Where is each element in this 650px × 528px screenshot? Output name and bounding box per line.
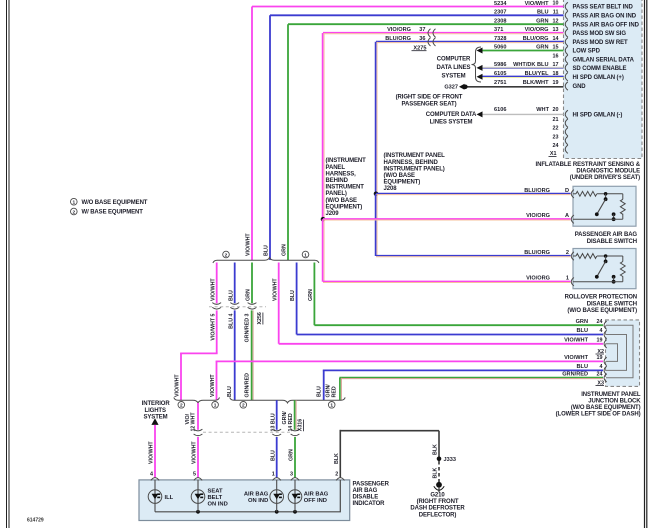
footnote 1 marker below merge brace (212, 402, 219, 409)
module U1 pin 20 bracket (565, 110, 568, 118)
wire VIO/WHT from interior lights to indicator pin 4 (154, 425, 156, 478)
wire BLU 4 below X256 down to merge brace (234, 310, 236, 400)
svg-text:2: 2 (242, 403, 245, 409)
svg-text:2751: 2751 (494, 80, 506, 86)
junction block internal bus 24-24 (606, 325, 633, 378)
junction block internal bus 4-4 (606, 335, 627, 371)
wire 5986 arrow to computer data lines (477, 65, 483, 71)
svg-text:GRN: GRN (289, 449, 295, 461)
svg-text:(RIGHT SIDE OF FRONT: (RIGHT SIDE OF FRONT (396, 95, 463, 101)
svg-text:BLU: BLU (228, 290, 234, 301)
svg-text:GMLAN SERIAL DATA: GMLAN SERIAL DATA (573, 57, 635, 63)
svg-text:W/O BASE EQUIPMENT: W/O BASE EQUIPMENT (82, 200, 148, 206)
svg-text:BLK: BLK (334, 453, 340, 464)
splice J208 dot (374, 192, 379, 197)
svg-text:BLU: BLU (290, 290, 296, 301)
svg-text:(W/O BASE EQUIPMENT): (W/O BASE EQUIPMENT) (571, 405, 641, 411)
wire BLU w/base vertical to X256 pin 4 (234, 263, 236, 304)
ground G327 splice dot and arrow (459, 84, 465, 90)
svg-text:13 BLU: 13 BLU (270, 413, 276, 431)
module U1 pin 22 bracket (565, 128, 568, 136)
svg-text:2: 2 (180, 403, 183, 409)
svg-text:2: 2 (335, 472, 338, 478)
svg-text:19: 19 (597, 355, 603, 361)
junction block pin 4 BLU bracket (604, 330, 607, 338)
wire GRN below X316 to indicator pin 3 (294, 437, 296, 478)
indicator lamp SEAT BELT ON IND (191, 490, 205, 504)
wire GRN w/o base vertical (313, 263, 315, 326)
svg-text:VIO/WHT: VIO/WHT (564, 338, 589, 344)
indicator pin bracket at x=295 (291, 478, 299, 481)
svg-text:X316: X316 (298, 419, 304, 431)
svg-text:614729: 614729 (27, 518, 44, 524)
svg-text:2308: 2308 (494, 19, 506, 25)
svg-text:PASS MOD SW SIG: PASS MOD SW SIG (573, 31, 627, 37)
wire VIO/WHT to junction block X2 pin 19 (279, 343, 603, 345)
svg-text:G327: G327 (444, 85, 458, 91)
svg-text:1: 1 (72, 200, 75, 206)
merge brace VIO/WHT pair (174, 397, 220, 403)
svg-text:VIO/ORG: VIO/ORG (525, 27, 549, 33)
svg-text:(W/O BASE: (W/O BASE (384, 173, 416, 179)
svg-text:GRN/RED: GRN/RED (245, 373, 251, 398)
passenger air bag disable indicator box (139, 480, 350, 521)
module U1 pin 23 bracket (565, 136, 568, 144)
svg-text:INDICATOR: INDICATOR (353, 501, 386, 507)
svg-text:BLK: BLK (433, 467, 439, 478)
svg-text:J209: J209 (326, 211, 340, 217)
wire 7328 vertical to splice J208 (375, 42, 377, 194)
junction block pin 24 GRN bracket (604, 321, 607, 329)
svg-text:4: 4 (150, 472, 153, 478)
wire BLU w/o base vertical (296, 263, 298, 335)
svg-text:OFF IND: OFF IND (304, 498, 327, 504)
module U1 pin 24 bracket (565, 145, 568, 153)
svg-text:AIR BAG: AIR BAG (353, 488, 378, 494)
wire 5234 VIO/WHT pin10 horizontal (252, 6, 564, 8)
svg-text:19: 19 (597, 338, 603, 344)
svg-text:VIO/WHT: VIO/WHT (149, 441, 155, 464)
module U1 pin 10 bracket (565, 2, 568, 10)
module U1 pin 17 bracket (565, 64, 568, 72)
svg-text:BLU: BLU (577, 364, 589, 370)
module U1 pin 12 bracket (565, 20, 568, 28)
svg-text:DATA LINES: DATA LINES (437, 65, 471, 71)
indicator pin bracket at x=198 (194, 478, 202, 481)
svg-text:GRN/RED: GRN/RED (562, 372, 588, 378)
connector X256 pin 3 (248, 303, 257, 305)
svg-text:GRN: GRN (282, 244, 288, 256)
wire VIO/WHT w/base vertical to X256 pin 5 (216, 263, 218, 304)
svg-text:RED: RED (332, 386, 338, 397)
svg-text:24: 24 (553, 143, 559, 149)
svg-text:J333: J333 (444, 457, 456, 463)
svg-text:24: 24 (597, 372, 603, 378)
page left border double line (6, 0, 8, 528)
svg-text:GRN/RED 3: GRN/RED 3 (245, 313, 251, 342)
svg-text:1: 1 (566, 276, 569, 282)
wire BLU/ORG from J208 down to rollover switch (375, 194, 377, 256)
svg-text:INSTRUMENT: INSTRUMENT (326, 185, 365, 191)
svg-text:(LOWER LEFT SIDE OF DASH): (LOWER LEFT SIDE OF DASH) (556, 412, 641, 418)
svg-text:5986: 5986 (494, 62, 506, 68)
svg-text:VIO/WHT: VIO/WHT (210, 278, 216, 301)
svg-text:VIO/WHT: VIO/WHT (525, 1, 550, 7)
svg-text:AIR BAG: AIR BAG (244, 492, 269, 498)
connector X275 on wire 371 (428, 29, 431, 37)
wire 6106 arrow to computer data lines (477, 111, 483, 117)
module U1 pin 19 bracket (565, 82, 568, 90)
svg-text:VIO/ORG: VIO/ORG (526, 213, 550, 219)
wire 2307 vertical drop at x=270 (269, 15, 271, 260)
svg-text:6106: 6106 (494, 107, 506, 113)
legend footnote 2 (71, 208, 78, 215)
svg-text:VIO/ORG: VIO/ORG (387, 27, 411, 33)
svg-text:BLU: BLU (264, 245, 270, 256)
wire BLK horizontal run (340, 430, 440, 432)
wire VIO/WHT w/o base vertical (278, 263, 280, 344)
svg-text:DISABLE: DISABLE (353, 495, 379, 501)
wire split brace with base / without base (213, 257, 319, 263)
svg-text:INSTRUMENT PANEL): INSTRUMENT PANEL) (384, 166, 445, 172)
connector X256 pin 5 (212, 303, 221, 305)
svg-text:LINES SYSTEM: LINES SYSTEM (430, 119, 473, 125)
svg-text:BLU: BLU (537, 10, 549, 16)
wire BLU to junction block X2 pin 4 (297, 334, 603, 336)
svg-text:(W/O BASE EQUIPMENT): (W/O BASE EQUIPMENT) (567, 308, 637, 314)
wire BLK down to splice J333 (438, 431, 440, 459)
svg-text:WHT/DK BLU: WHT/DK BLU (513, 62, 548, 68)
svg-text:COMPUTER: COMPUTER (437, 56, 471, 62)
svg-text:4: 4 (600, 328, 603, 334)
svg-text:VIO/WHT: VIO/WHT (272, 278, 278, 301)
svg-text:INFLATABLE RESTRAINT SENSING &: INFLATABLE RESTRAINT SENSING & (536, 162, 641, 168)
svg-text:SYSTEM: SYSTEM (441, 73, 465, 79)
svg-text:GND: GND (573, 84, 587, 90)
wire VIO/ORG from J209 down to rollover switch (322, 219, 324, 282)
wire 6105 BLU/YEL pin18 (481, 75, 564, 77)
wire 5234 vertical drop at x=252 (251, 7, 253, 261)
connector X256 dashed line (209, 306, 266, 308)
svg-text:WHT: WHT (536, 107, 549, 113)
wire GRN w/base vertical to X256 pin 3 (251, 263, 253, 304)
wire 7328 BLU/ORG pin14 horizontal (376, 40, 564, 42)
indicator lamp AIR BAG OFF IND (288, 490, 302, 504)
svg-text:1: 1 (214, 403, 217, 409)
svg-text:BLU/YEL: BLU/YEL (525, 71, 550, 77)
svg-text:(W/O BASE: (W/O BASE (326, 198, 358, 204)
svg-text:PASSENGER: PASSENGER (353, 481, 390, 487)
svg-text:HI SPD GMLAN (+): HI SPD GMLAN (+) (573, 75, 624, 81)
svg-text:GRN: GRN (536, 19, 548, 25)
svg-text:VIO/ORG: VIO/ORG (526, 276, 550, 282)
svg-text:DASH DEFROSTER: DASH DEFROSTER (410, 506, 465, 512)
svg-text:PASS AIR BAG ON IND: PASS AIR BAG ON IND (573, 13, 637, 19)
indicator pin bracket at x=155 (151, 478, 159, 481)
svg-text:AIR BAG: AIR BAG (304, 492, 329, 498)
svg-text:INSTRUMENT PANEL: INSTRUMENT PANEL (581, 392, 641, 398)
connector X316 pin 14 (291, 429, 300, 431)
svg-text:VIO/WHT: VIO/WHT (564, 355, 589, 361)
svg-text:2307: 2307 (494, 10, 506, 16)
svg-text:JUNCTION BLOCK: JUNCTION BLOCK (588, 398, 641, 404)
svg-text:BLU: BLU (227, 386, 233, 397)
svg-text:HARNESS,: HARNESS, (326, 171, 357, 177)
wire 2307 BLU pin11 horizontal (270, 14, 564, 16)
svg-text:ROLLOVER PROTECTION: ROLLOVER PROTECTION (565, 295, 637, 301)
svg-text:(INSTRUMENT: (INSTRUMENT (326, 158, 367, 164)
svg-text:6105: 6105 (494, 71, 506, 77)
svg-text:21: 21 (553, 117, 559, 123)
svg-text:EQUIPMENT): EQUIPMENT) (326, 204, 363, 210)
svg-text:VIO/WHT: VIO/WHT (192, 441, 198, 464)
svg-text:19: 19 (553, 80, 559, 86)
wire VIO/WHT 12 to connector X316 (197, 403, 199, 430)
inflatable restraint sensing & diagnostic module U1 box (564, 0, 643, 159)
svg-text:BLK: BLK (433, 444, 439, 455)
legend footnote 1 (71, 198, 78, 205)
module U1 pin 21 bracket (565, 119, 568, 127)
wire BLU/ORG to rollover switch pin 2 (376, 255, 571, 257)
wire VIO/WHT w/base down to merge brace (180, 353, 182, 400)
interior lights system arrow (151, 418, 158, 425)
svg-text:2: 2 (225, 252, 228, 258)
svg-text:BLU/ORG: BLU/ORG (524, 250, 550, 256)
wire VIO/WHT 5 below X256 (216, 310, 218, 353)
footnote 1 marker above brace (302, 251, 309, 258)
svg-text:HARNESS, BEHIND: HARNESS, BEHIND (384, 160, 439, 166)
svg-text:BLU/ORG: BLU/ORG (385, 36, 411, 42)
svg-text:(INSTRUMENT PANEL: (INSTRUMENT PANEL (384, 153, 446, 159)
splice J333 dot (437, 457, 442, 462)
passenger air bag disable switch S1 box (573, 186, 636, 226)
svg-text:D: D (565, 188, 569, 194)
wire GRN/RED junction X3 pin 24 to merge brace (339, 376, 603, 378)
wire BLU junction X3 pin 4 to merge brace (323, 369, 603, 371)
svg-text:PASS AIR BAG OFF IND: PASS AIR BAG OFF IND (573, 22, 640, 28)
svg-text:1: 1 (330, 403, 333, 409)
junction block pin 19 VIO/WHT bracket (604, 340, 607, 348)
svg-text:BLU/ORG: BLU/ORG (523, 36, 549, 42)
wire 2751 BLK/WHT pin19 from ground G327 (467, 86, 564, 88)
svg-text:VIO/WHT: VIO/WHT (175, 374, 181, 397)
svg-text:36: 36 (419, 36, 425, 42)
svg-text:(RIGHT FRONT: (RIGHT FRONT (417, 499, 459, 505)
junction block pin 4 BLU bracket (604, 366, 607, 374)
footnote 2 marker below BLU brace (240, 402, 247, 409)
indicator pin bracket at x=340.3 (336, 478, 344, 481)
svg-text:5060: 5060 (494, 45, 506, 51)
module U1 pin 11 bracket (565, 11, 568, 19)
wire BLK dashed to ground G210 (438, 461, 440, 482)
connector X316 dashed line (203, 431, 290, 433)
junction block pin 24 GRN/RED bracket (604, 374, 607, 382)
svg-text:20: 20 (553, 107, 559, 113)
svg-text:ON IND: ON IND (248, 498, 268, 504)
indicator internal bus from pin 2 (155, 480, 340, 512)
computer data lines system brace (472, 47, 482, 82)
svg-text:VIO/WHT: VIO/WHT (246, 233, 252, 256)
wire 5060 arrow to computer data lines (477, 48, 483, 54)
svg-text:GRN: GRN (536, 45, 548, 51)
svg-text:PANEL): PANEL) (326, 191, 347, 197)
svg-text:DEFLECTOR): DEFLECTOR) (419, 512, 457, 518)
wire 2308 vertical drop at x=288 (287, 24, 289, 260)
module U1 pin 16 bracket (565, 55, 568, 63)
connector X316 pin 13 (272, 429, 281, 431)
indicator bus junction dots (196, 510, 200, 514)
svg-text:G210: G210 (430, 492, 445, 498)
wire GRN to junction block X2 pin 24 (314, 324, 603, 326)
module U1 pin 13 bracket (565, 29, 568, 37)
page right border double line (644, 0, 646, 528)
svg-text:ON IND: ON IND (208, 501, 228, 507)
junction block pin 19 VIO/WHT bracket (604, 357, 607, 365)
svg-text:3: 3 (290, 472, 293, 478)
svg-text:EQUIPMENT): EQUIPMENT) (384, 180, 421, 186)
footnote 1 marker below BLU brace (328, 402, 335, 409)
rollover protection disable switch S2 box (573, 249, 636, 289)
svg-text:INTERIOR: INTERIOR (142, 401, 171, 407)
svg-text:VIO/WHT 5: VIO/WHT 5 (210, 313, 216, 340)
wire 371 vertical to splice J209 (322, 33, 324, 219)
svg-text:BLU 4: BLU 4 (228, 313, 234, 328)
svg-text:37: 37 (419, 27, 425, 33)
module U1 pin 14 bracket (565, 38, 568, 46)
indicator lamp ILL (148, 490, 162, 504)
footnote 2 marker above brace (223, 251, 230, 258)
connector X275 on wire 7328 (428, 38, 431, 46)
svg-text:WHT: WHT (191, 412, 197, 425)
svg-text:GRN: GRN (308, 289, 314, 301)
svg-text:HI SPD GMLAN (-): HI SPD GMLAN (-) (573, 113, 623, 119)
wire BLU 13 to connector X316 (276, 400, 278, 430)
wire VIO/ORG from J209 to passenger switch pin A (323, 218, 571, 220)
svg-text:BLK/WHT: BLK/WHT (523, 80, 549, 86)
svg-text:LOW SPD: LOW SPD (573, 49, 601, 55)
wire BLK from indicator pin 2 riser (339, 430, 341, 478)
svg-text:BELT: BELT (208, 495, 223, 501)
wire BLU below X316 to indicator pin 1 (276, 437, 278, 478)
svg-text:BLU/ORG: BLU/ORG (524, 188, 550, 194)
indicator lamp AIR BAG ON IND (270, 490, 284, 504)
merge brace BLU GRN/RED group (230, 397, 346, 403)
svg-text:SEAT: SEAT (208, 488, 223, 494)
svg-text:BLU: BLU (577, 328, 589, 334)
svg-text:PASSENGER AIR BAG: PASSENGER AIR BAG (575, 232, 638, 238)
svg-text:BEHIND: BEHIND (326, 178, 349, 184)
svg-text:A: A (565, 213, 569, 219)
svg-text:16: 16 (553, 53, 559, 59)
svg-text:24: 24 (597, 319, 603, 325)
wire GRN/RED 14 to connector X316 (294, 400, 296, 430)
svg-text:BLU: BLU (270, 450, 276, 461)
svg-text:ILL: ILL (165, 495, 174, 501)
svg-text:4: 4 (600, 364, 603, 370)
svg-text:GRN: GRN (246, 289, 252, 301)
svg-text:DIAGNOSTIC MODULE: DIAGNOSTIC MODULE (576, 168, 640, 174)
wire VIO/WHT below X316 to indicator pin 5 (197, 437, 199, 478)
splice J209 dot (321, 217, 326, 222)
wire VIO/WHT junction X3 pin 19 to merge brace (216, 360, 603, 362)
wire VIO/WHT jog left (180, 352, 218, 354)
svg-text:LIGHTS: LIGHTS (145, 408, 166, 414)
module U1 pin 15 bracket (565, 46, 568, 54)
svg-text:PASS SEAT BELT IND: PASS SEAT BELT IND (573, 5, 634, 11)
connector X316 pin 12 (194, 429, 203, 431)
svg-text:2: 2 (72, 209, 75, 215)
svg-text:DISABLE SWITCH: DISABLE SWITCH (587, 301, 637, 307)
svg-text:J208: J208 (384, 186, 398, 192)
svg-text:BLU: BLU (316, 386, 322, 397)
svg-text:W/ BASE EQUIPMENT: W/ BASE EQUIPMENT (82, 210, 144, 216)
svg-text:DISABLE SWITCH: DISABLE SWITCH (587, 239, 637, 245)
wire 5060 GRN pin15 (481, 50, 564, 52)
svg-text:1: 1 (304, 252, 307, 258)
svg-text:22: 22 (553, 126, 559, 132)
wire 6106 WHT pin20 (481, 113, 564, 115)
wire 5986 WHT/DK BLU pin17 (481, 66, 564, 68)
wire 2308 GRN pin12 horizontal (288, 23, 564, 25)
ground G210 symbol (436, 482, 442, 488)
svg-text:23: 23 (553, 134, 559, 140)
wire BLU/ORG from J208 to passenger switch pin D (376, 192, 571, 194)
svg-text:7328: 7328 (494, 36, 506, 42)
svg-text:PANEL: PANEL (326, 165, 346, 171)
svg-text:5: 5 (193, 472, 196, 478)
svg-text:(UNDER DRIVER'S SEAT): (UNDER DRIVER'S SEAT) (570, 175, 640, 181)
svg-text:2: 2 (566, 250, 569, 256)
wire GRN/RED 3 below X256 down to merge brace (251, 310, 253, 400)
indicator pin bracket at x=276.7 (273, 478, 281, 481)
footnote 2 marker below merge brace (178, 402, 185, 409)
connector X256 pin 4 (230, 303, 239, 305)
module U1 pin 18 bracket (565, 73, 568, 81)
svg-text:COMPUTER DATA: COMPUTER DATA (426, 112, 477, 118)
svg-text:PASS MOD SW RET: PASS MOD SW RET (573, 40, 628, 46)
wire 371 VIO/ORG pin13 horizontal (323, 32, 564, 34)
instrument panel junction block J1 box (606, 320, 640, 387)
svg-text:371: 371 (494, 27, 503, 33)
wire 6105 arrow to computer data lines (477, 74, 483, 80)
svg-text:SD COMM ENABLE: SD COMM ENABLE (573, 66, 627, 72)
svg-text:RED: RED (288, 413, 294, 424)
svg-text:PASSENGER SEAT): PASSENGER SEAT) (402, 102, 457, 108)
svg-text:1: 1 (272, 472, 275, 478)
svg-text:GRN: GRN (576, 319, 588, 325)
junction block internal bus 19-19 (606, 344, 618, 362)
svg-text:X256: X256 (257, 312, 263, 324)
svg-text:5234: 5234 (494, 1, 507, 7)
svg-text:VIO/WHT: VIO/WHT (210, 374, 216, 397)
wire VIO/ORG to rollover switch pin 1 (323, 280, 571, 282)
